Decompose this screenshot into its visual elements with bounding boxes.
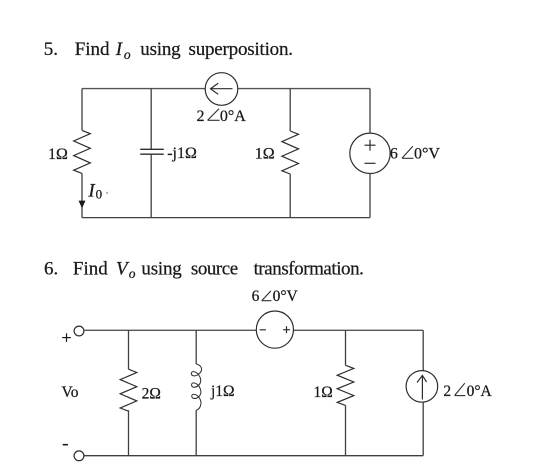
label 2∠0°A (I2) [443, 383, 492, 400]
svg-text:0°A: 0°A [220, 108, 246, 125]
svg-text:6: 6 [390, 145, 398, 162]
wire left upper (circuit 5) [81, 89, 83, 131]
resistor R3 2Ω (circuit 6) [120, 369, 137, 411]
svg-text:using: using [141, 258, 182, 279]
resistor R1 1Ω (circuit 5 left) [74, 130, 91, 173]
svg-text:Find: Find [75, 39, 110, 60]
wire 2Ω branch upper (circuit 6) [128, 330, 130, 369]
wire capacitor branch upper (circuit 5) [150, 89, 152, 150]
wire R2 branch lower (circuit 5) [289, 174, 291, 218]
minus sign (Vo polarity -) [63, 444, 68, 446]
svg-text:Find: Find [73, 258, 108, 279]
voltage source V2 6∠0°V (circuit 6 top) [256, 311, 293, 348]
wire right upper (circuit 6) [422, 330, 424, 370]
wire top segment A (circuit 6) [84, 329, 256, 331]
wire capacitor branch lower (circuit 5) [150, 154, 152, 217]
wire 1Ω branch upper (circuit 6) [345, 330, 347, 365]
resistor R2 1Ω (circuit 5 middle-right) [282, 131, 299, 174]
wire bottom (circuit 6) [84, 455, 423, 457]
wire 1Ω branch lower (circuit 6) [345, 405, 347, 455]
svg-text:2: 2 [443, 383, 451, 400]
svg-text:2: 2 [197, 108, 205, 125]
svg-text:source: source [191, 258, 238, 279]
problem 5 title [44, 39, 293, 62]
svg-text:1Ω: 1Ω [48, 146, 68, 163]
wire right upper (circuit 5) [369, 89, 371, 134]
svg-text:5.: 5. [44, 39, 58, 60]
svg-text:using: using [140, 39, 181, 60]
svg-text:6.: 6. [44, 258, 58, 279]
label 2∠0°A [197, 108, 247, 125]
svg-text:2Ω: 2Ω [142, 385, 161, 402]
wire inductor branch lower (circuit 6) [195, 410, 197, 455]
svg-text:Vo: Vo [62, 384, 79, 401]
terminal circle top-left (circuit 6) [74, 326, 84, 336]
wire inductor branch upper (circuit 6) [195, 330, 197, 364]
svg-text:0°A: 0°A [467, 383, 493, 400]
svg-text:o: o [124, 47, 131, 62]
wire right lower (circuit 5) [369, 174, 371, 218]
svg-text:superposition.: superposition. [189, 39, 293, 60]
plus sign (Vo polarity +) [62, 333, 71, 342]
current source I2 2∠0°A (circuit 6 right) [406, 371, 438, 403]
inductor L1 j1Ω (circuit 6) [191, 364, 201, 410]
svg-text:o: o [129, 266, 136, 281]
wire top-left segment (circuit 5) [82, 88, 206, 90]
problem 6 title [44, 258, 363, 281]
Io current arrowhead [79, 201, 86, 209]
svg-text:6: 6 [252, 288, 260, 305]
svg-text:1Ω: 1Ω [255, 145, 275, 162]
label Io [87, 180, 107, 201]
wire bottom (circuit 5) [82, 217, 370, 219]
svg-text:-j1Ω: -j1Ω [167, 145, 197, 162]
capacitor C1 -j1Ω [140, 149, 164, 154]
wire below R1 (circuit 5) [81, 173, 83, 217]
wire right lower (circuit 6) [422, 402, 424, 456]
label 6∠0°V (V1) [390, 145, 440, 162]
wire R2 branch upper (circuit 5) [289, 89, 291, 131]
wire top segment B (circuit 6) [294, 329, 424, 331]
svg-text:transformation.: transformation. [254, 258, 364, 279]
label 6∠0°V (V2) [252, 288, 299, 305]
resistor R4 1Ω (circuit 6) [337, 365, 354, 405]
svg-text:j1Ω: j1Ω [210, 383, 235, 400]
svg-text:1Ω: 1Ω [314, 384, 333, 401]
terminal circle bottom-left (circuit 6) [74, 451, 84, 461]
wire top-right segment (circuit 5) [237, 88, 370, 90]
voltage source V1 6∠0°V (circuit 5 right) [350, 133, 390, 173]
current source 2∠0°A (circuit 5 top) [205, 73, 238, 106]
wire 2Ω branch lower (circuit 6) [128, 410, 130, 456]
svg-text:0°V: 0°V [414, 145, 440, 162]
svg-text:0°V: 0°V [273, 288, 299, 305]
svg-text:0: 0 [96, 186, 103, 201]
